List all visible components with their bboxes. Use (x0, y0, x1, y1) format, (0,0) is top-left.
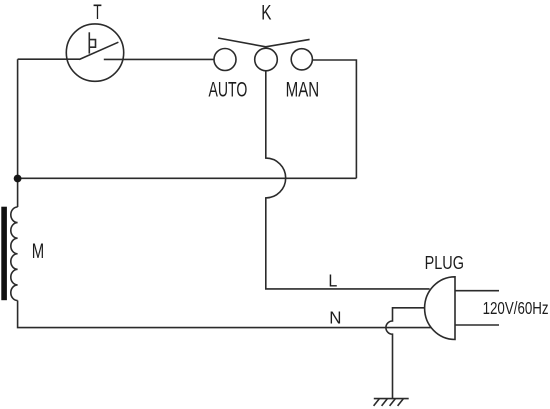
svg-text:L: L (328, 271, 337, 291)
node A junction dot (14, 175, 22, 183)
wire ground stub from plug down with crossing hop to earth (386, 308, 425, 399)
svg-text:120V/60Hz: 120V/60Hz (483, 299, 549, 318)
switch K MAN contact (291, 49, 312, 70)
svg-text:M: M (32, 240, 44, 263)
svg-text:T: T (93, 0, 102, 24)
wire L from K common down with crossing hop to plug (266, 71, 430, 289)
svg-text:PLUG: PLUG (425, 252, 464, 273)
wire MAN contact to right vertical down to bus (312, 60, 356, 178)
motor coil M winding (11, 207, 18, 301)
plug P1 body (425, 277, 455, 340)
switch K blade (218, 38, 310, 47)
svg-text:AUTO: AUTO (208, 78, 247, 101)
switch K common contact (255, 48, 278, 71)
timer T (66, 24, 123, 81)
motor coil M core bar (1, 207, 7, 301)
svg-text:MAN: MAN (286, 77, 320, 101)
switch K AUTO contact (214, 49, 236, 71)
wire left top from node A to timer pivot (18, 58, 80, 60)
wire N from coil bottom to plug (18, 301, 431, 328)
wire plug pin N prong (455, 324, 499, 326)
svg-text:N: N (329, 307, 341, 328)
wire plug pin L prong (455, 290, 499, 292)
svg-text:K: K (261, 0, 272, 24)
wire horizontal bus from node A to right vertical (18, 177, 357, 179)
wire left vertical bus (17, 59, 19, 207)
ground earth symbol (374, 399, 409, 406)
wire timer right contact to AUTO contact (104, 58, 214, 60)
